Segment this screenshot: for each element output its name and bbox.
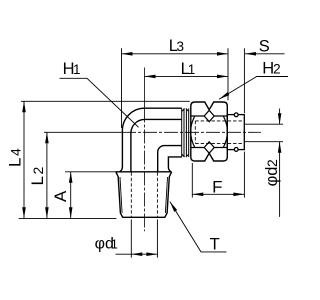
svg-text:L4: L4 (5, 147, 24, 167)
svg-text:S: S (259, 38, 270, 56)
svg-text:L2: L2 (28, 165, 47, 185)
svg-text:φd2: φd2 (263, 159, 281, 186)
svg-text:H1: H1 (63, 60, 81, 78)
svg-text:L3: L3 (169, 37, 184, 55)
svg-text:T: T (210, 236, 220, 254)
svg-text:A: A (51, 190, 70, 202)
svg-text:φd1: φd1 (95, 236, 118, 253)
svg-text:H2: H2 (262, 59, 280, 77)
svg-text:L1: L1 (181, 60, 196, 78)
svg-text:F: F (212, 178, 222, 197)
